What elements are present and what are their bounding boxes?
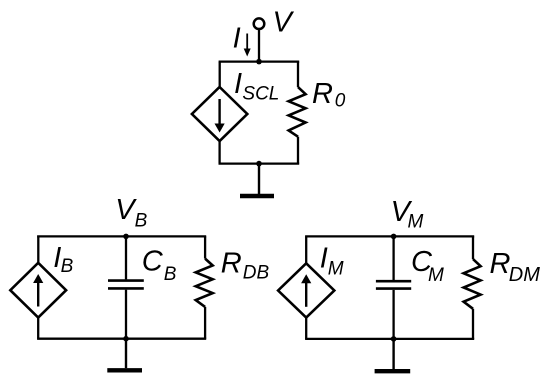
wire left down to source: [219, 62, 221, 88]
svg-text:DM: DM: [509, 264, 540, 286]
wire bottom horizontal (left circuit): [37, 338, 206, 340]
wire top horizontal: [219, 60, 300, 62]
wire source to bottom: [37, 317, 39, 339]
svg-text:M: M: [428, 265, 444, 286]
wire left down to source: [37, 236, 39, 263]
svg-text:I: I: [233, 22, 241, 54]
svg-text:V: V: [273, 6, 295, 38]
svg-text:M: M: [408, 212, 424, 233]
resistor R0: [289, 87, 306, 137]
svg-text:R: R: [312, 78, 333, 110]
svg-text:B: B: [135, 210, 148, 231]
current source I_SCL (diamond, arrow down): [192, 87, 247, 141]
resistor R_DB: [196, 259, 213, 307]
current source I_M (diamond, arrow up): [278, 263, 334, 317]
svg-text:SCL: SCL: [242, 83, 279, 104]
svg-text:B: B: [61, 256, 74, 277]
wire bottom horizontal (right circuit): [305, 338, 474, 340]
node junction bottom: [256, 161, 262, 167]
svg-text:I: I: [234, 68, 242, 100]
svg-text:C: C: [142, 245, 164, 277]
wire resistor to bottom: [472, 309, 474, 339]
wire right down to resistor: [297, 62, 299, 88]
current arrow I: [244, 34, 251, 57]
svg-text:I: I: [320, 243, 328, 275]
svg-text:R: R: [490, 248, 511, 280]
ground (top circuit): [240, 164, 274, 196]
wire bottom horizontal: [219, 162, 300, 164]
node V terminal (open circle): [254, 18, 265, 29]
svg-text:DB: DB: [243, 262, 270, 283]
node junction V_B: [123, 234, 129, 240]
wire resistor to bottom: [297, 137, 299, 164]
node junction top: [256, 59, 262, 65]
wire resistor to bottom: [204, 307, 206, 339]
svg-text:R: R: [221, 247, 242, 279]
node junction bottom (right circuit): [391, 336, 397, 342]
svg-text:0: 0: [335, 90, 346, 111]
wire right down to resistor: [204, 236, 206, 258]
wire top horizontal (left circuit): [37, 235, 206, 237]
capacitor C_B: [108, 236, 144, 338]
node junction bottom (left circuit): [123, 336, 129, 342]
wire left down to source: [305, 236, 307, 264]
wire terminal to top node: [258, 30, 260, 62]
wire top horizontal (right circuit): [305, 235, 474, 237]
ground (right circuit): [375, 339, 411, 371]
wire right down to resistor: [472, 236, 474, 259]
resistor R_DM: [464, 259, 481, 309]
wire source to bottom: [218, 140, 220, 164]
current source I_B (diamond, arrow up): [10, 263, 66, 318]
svg-text:M: M: [328, 259, 344, 280]
capacitor C_M: [376, 236, 411, 339]
svg-text:B: B: [164, 264, 177, 285]
ground (left circuit): [107, 339, 142, 371]
node junction V_M: [391, 234, 397, 240]
wire source to bottom: [305, 317, 307, 339]
